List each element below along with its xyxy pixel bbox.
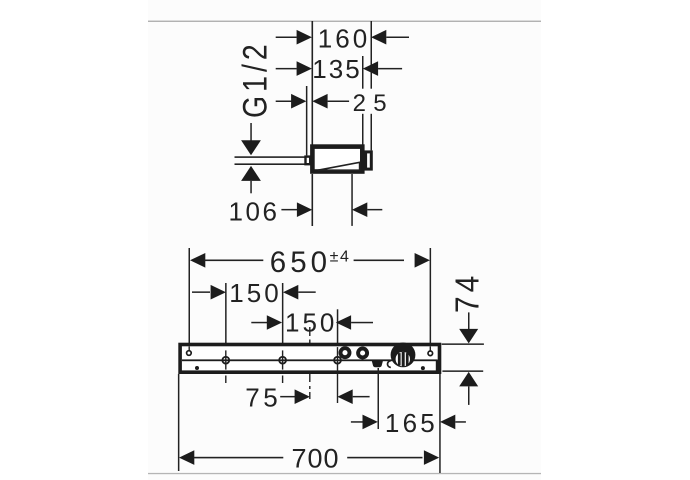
dimension 106 leader right [367, 209, 382, 211]
wire: 650R ext dash into bar [430, 346, 431, 351]
bar body outline [180, 345, 439, 373]
wire: hole3 ext below [337, 374, 338, 403]
wire: ext line hole1 above [225, 283, 227, 343]
dimension 135 arrow right [363, 61, 378, 76]
wire: 74 leader upper [468, 312, 470, 329]
dimension 106 arrow left [297, 202, 312, 217]
wire: ext line 160 right upper [371, 21, 373, 89]
wire: ext line right screw (650 R) [430, 248, 432, 343]
74 arrow up [459, 372, 478, 387]
dimension 75 arrow right [337, 389, 352, 404]
svg-text:106: 106 [229, 196, 280, 226]
dimension 650 line right [354, 260, 404, 262]
dimension 700 arrow right [424, 450, 439, 465]
dimension 75 arrow left [295, 389, 310, 404]
dimension 650 arrow left [190, 253, 205, 268]
svg-text:135: 135 [312, 54, 361, 84]
dimension 150b leader left [251, 322, 267, 324]
wire: ext line 25 left [306, 86, 308, 155]
wire: outlet ext below [378, 368, 380, 429]
dimension 160 leader left [276, 37, 297, 39]
dimension 135 leader right [378, 68, 402, 70]
crosshair hole 3 [334, 357, 341, 364]
dimension 160 arrow right [371, 30, 386, 45]
dimension 165 arrow left [363, 415, 378, 430]
74 ref line bottom [442, 370, 483, 372]
right screw hole [428, 351, 433, 356]
wire: ext line 135 right upper [362, 56, 364, 89]
dimension 106 arrow right [352, 202, 367, 217]
dimension 700 line left [194, 457, 284, 459]
74 ref line top [442, 343, 484, 345]
wire: ext line 135 right lower [362, 114, 364, 145]
dimension 25 leader left [276, 101, 292, 103]
wire: G1/2 leader upper [250, 123, 252, 141]
svg-text:74: 74 [448, 272, 486, 313]
dimension 135 leader left [276, 68, 297, 70]
svg-text:2: 2 [353, 90, 366, 117]
bar right end divider [436, 360, 439, 373]
svg-text:G1/2: G1/2 [236, 40, 274, 118]
dimension 150a leader left [192, 291, 210, 293]
dimension 700 line right [347, 457, 422, 459]
wire: center line below bar (dash-dot) [309, 374, 310, 382]
thermostat dial disk [391, 343, 416, 368]
small arc left of dial [387, 361, 390, 368]
dimension 650 line left [204, 260, 263, 262]
dimension 106 leader left [281, 209, 297, 211]
wire: ext line bar right below [439, 374, 441, 473]
wire: center line above bar (dash) [309, 327, 310, 336]
svg-text:±4: ±4 [330, 248, 351, 265]
crosshair hole 1 [222, 357, 229, 364]
dial inner face [396, 352, 410, 366]
dimension 150b arrow right [336, 315, 351, 330]
wire: 74 leader lower [468, 386, 470, 405]
photo background block [148, 0, 541, 480]
G1/2 arrow up [241, 166, 261, 181]
bottom gray border line [148, 473, 541, 474]
left screw hole [187, 351, 192, 356]
dimension 75 leader left [280, 396, 295, 398]
valve body U1 [312, 147, 362, 172]
dimension 75 leader right [353, 396, 370, 398]
wire: ext line hole2 above [282, 283, 284, 343]
port circle 2 [358, 349, 367, 358]
wire: ext line bar left below [178, 374, 180, 471]
svg-text:5: 5 [373, 90, 386, 117]
dimension 25 leader right [328, 101, 350, 103]
svg-text:165: 165 [385, 408, 438, 438]
wire: ext line left screw (650 L) [189, 248, 191, 343]
wire: ext line 160 right lower [371, 114, 373, 151]
dimension 700 arrow left [179, 450, 194, 465]
svg-text:160: 160 [318, 24, 370, 54]
wire: main wall line upper [312, 21, 314, 145]
outlet blob [372, 360, 384, 367]
dimension 165 leader left [351, 421, 363, 423]
bottom dot right [421, 366, 425, 370]
74 arrow down [459, 329, 478, 344]
wire: ext line 106 right [351, 174, 353, 226]
dimension 165 arrow right [440, 415, 455, 430]
pipe line bottom [235, 163, 307, 165]
wire: ext line hole3 above [337, 309, 339, 343]
wire: 650L ext dash into bar [189, 346, 190, 350]
wire: main wall line lower [312, 174, 314, 226]
svg-text:650: 650 [270, 246, 331, 279]
dimension 150b leader right [351, 322, 373, 324]
dimension 150a leader right [298, 291, 315, 293]
wire: hole2 stub below [282, 376, 283, 384]
crosshair hole 2 [279, 357, 286, 364]
pipe line top [235, 156, 307, 158]
svg-text:700: 700 [291, 443, 339, 473]
svg-text:75: 75 [245, 383, 281, 413]
dimension 25 arrow right [312, 94, 327, 109]
svg-text:150: 150 [229, 278, 281, 308]
bottom dot left [195, 366, 199, 370]
valve wedge [318, 162, 360, 170]
dimension 150a arrow left [211, 285, 226, 300]
dimension 135 arrow left [297, 61, 312, 76]
wire: G1/2 leader lower [250, 181, 252, 193]
top gray border line [148, 21, 541, 22]
dimension 25 arrow left [291, 94, 306, 109]
dial grip bars [402, 352, 405, 367]
bar inner horizontal line [182, 359, 438, 361]
dimension 160 arrow left [297, 30, 312, 45]
G1/2 arrow down [241, 140, 261, 155]
valve stub left [306, 157, 311, 165]
dimension 160 leader right [386, 37, 409, 39]
dimension 165 leader right [455, 421, 466, 423]
dimension 150a arrow right [283, 285, 298, 300]
svg-text:150: 150 [285, 307, 337, 337]
dimension 150b arrow left [267, 315, 282, 330]
valve connector right [366, 152, 372, 169]
dimension 650 arrow right [415, 253, 430, 268]
port circle 1 [341, 348, 350, 357]
wire: hole1 stub below [225, 376, 226, 384]
